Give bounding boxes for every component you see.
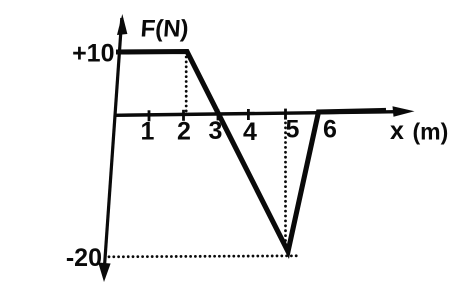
tick x=3 xyxy=(217,109,220,120)
svg-text:F(N): F(N) xyxy=(140,16,190,43)
svg-text:2: 2 xyxy=(177,118,191,146)
svg-text:3: 3 xyxy=(209,117,223,145)
dotted guide y=-20 xyxy=(109,254,299,258)
svg-text:x: x xyxy=(390,117,404,145)
y-axis F xyxy=(105,18,122,266)
x-axis xyxy=(114,112,404,116)
dotted guide x=5 xyxy=(284,118,287,249)
dotted guide x=2 xyxy=(185,57,188,111)
svg-text:6: 6 xyxy=(323,116,337,144)
tick x=5 xyxy=(284,109,287,120)
svg-text:5: 5 xyxy=(286,116,300,144)
x-axis arrowhead right xyxy=(393,106,415,117)
tick x=1 xyxy=(148,110,151,121)
svg-text:1: 1 xyxy=(141,118,155,146)
force curve F(x) xyxy=(116,52,386,252)
y-axis arrowhead down xyxy=(98,263,110,283)
svg-text:4: 4 xyxy=(243,118,257,146)
svg-text:-20: -20 xyxy=(66,244,102,272)
tick x=2 xyxy=(182,110,185,121)
y-axis arrowhead up xyxy=(117,14,127,35)
tick x=4 xyxy=(247,109,250,120)
svg-text:(m): (m) xyxy=(413,119,449,145)
svg-text:+10: +10 xyxy=(72,40,114,68)
